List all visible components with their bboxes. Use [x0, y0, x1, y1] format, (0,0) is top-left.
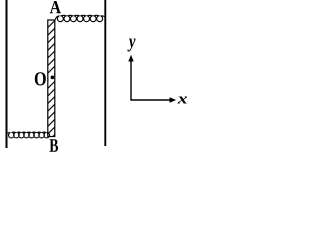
x axis arrowhead [170, 97, 177, 102]
label x [178, 97, 188, 104]
spring (bottom coil) from left rail to rod bottom B [7, 132, 49, 138]
rod AB (hatched) [48, 20, 55, 137]
right rail [104, 0, 106, 146]
label A [50, 1, 61, 13]
spring (top coil) from rod top A to right rail [55, 15, 105, 21]
label y [128, 39, 136, 52]
y axis arrowhead [128, 55, 133, 62]
label O [35, 72, 46, 85]
left rail [6, 0, 8, 148]
x axis [130, 99, 170, 101]
y axis [130, 60, 132, 100]
label B [50, 139, 59, 152]
white gap in rod hatching around node O [49, 74, 54, 82]
node O dot on rod [51, 76, 55, 80]
